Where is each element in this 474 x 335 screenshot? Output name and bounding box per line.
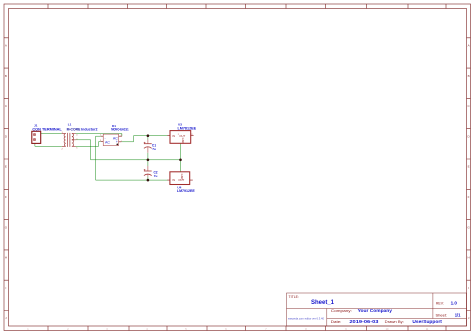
svg-text:A: A (468, 44, 470, 48)
svg-text:LM7912EE: LM7912EE (177, 189, 196, 193)
svg-text:E: E (5, 165, 7, 169)
svg-text:Company:: Company: (331, 309, 352, 313)
svg-text:TITLE:: TITLE: (289, 295, 299, 299)
svg-text:H: H (468, 256, 470, 260)
svg-text:H: H (5, 256, 7, 260)
svg-text:LM7812EE: LM7812EE (178, 126, 197, 130)
svg-text:Inductor2: Inductor2 (81, 128, 97, 132)
svg-text:Sheet:: Sheet: (436, 314, 448, 318)
svg-text:E: E (468, 165, 470, 169)
svg-text:2019-06-03: 2019-06-03 (349, 319, 379, 324)
svg-text:1/1: 1/1 (455, 313, 461, 318)
svg-text:REV:: REV: (436, 302, 444, 306)
svg-text:GND: GND (181, 138, 185, 144)
svg-text:Your Company: Your Company (358, 308, 393, 313)
svg-text:MONO-EA1S1: MONO-EA1S1 (111, 128, 129, 132)
svg-text:Sheet_1: Sheet_1 (311, 300, 335, 306)
svg-text:1.0: 1.0 (451, 301, 458, 306)
svg-text:L1: L1 (68, 122, 72, 126)
svg-text:B: B (5, 74, 7, 78)
svg-text:CON TERMINAL: CON TERMINAL (32, 127, 62, 131)
svg-text:-: - (105, 136, 106, 140)
svg-text:I: I (468, 286, 469, 290)
svg-text:+: + (116, 140, 118, 144)
svg-text:Drawn By:: Drawn By: (385, 320, 404, 324)
svg-text:B: B (468, 74, 470, 78)
svg-text:IN: IN (172, 134, 175, 138)
svg-text:7u: 7u (154, 174, 158, 178)
svg-text:UserSupport: UserSupport (412, 319, 442, 324)
svg-text:M-CORE: M-CORE (67, 128, 81, 132)
svg-text:easyeda.com editor ver 6.3.40: easyeda.com editor ver 6.3.40 (288, 316, 324, 320)
svg-text:A: A (5, 44, 7, 48)
svg-text:7u: 7u (152, 147, 156, 151)
svg-text:GND: GND (180, 174, 184, 180)
svg-text:Date:: Date: (331, 320, 342, 324)
svg-text:IN: IN (172, 178, 175, 182)
svg-text:AC: AC (105, 141, 110, 145)
svg-text:F: F (5, 195, 7, 199)
svg-text:F: F (468, 195, 470, 199)
